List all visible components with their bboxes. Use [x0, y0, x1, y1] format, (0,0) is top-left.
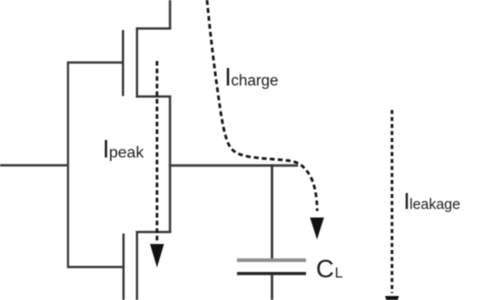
- svg-text:peak: peak: [109, 145, 145, 162]
- wire output node: horizontal run: [169, 164, 298, 166]
- label CL: [316, 256, 343, 284]
- capacitor CL top lead: [271, 164, 273, 258]
- wire PMOS gate lead: [68, 61, 123, 63]
- current arrow Icharge (dashed S-curve to capacitor): [207, 0, 324, 240]
- svg-text:charge: charge: [231, 73, 278, 90]
- svg-text:leakage: leakage: [410, 197, 461, 213]
- svg-text:L: L: [335, 266, 343, 282]
- capacitor CL bottom lead: [271, 275, 273, 300]
- wire NMOS gate lead: [68, 266, 124, 268]
- capacitor CL top plate: [237, 258, 306, 262]
- wire gate bus vertical: [67, 61, 69, 268]
- transistor M1 PMOS: gate plate, channel bar, drain/source bars: [123, 27, 171, 97]
- svg-text:C: C: [316, 256, 334, 284]
- current arrow Ipeak (dashed, down through inverter): [150, 61, 164, 268]
- wire PMOS drain stub to VDD (top edge): [169, 0, 171, 29]
- wire input from left edge: [0, 164, 69, 166]
- capacitor CL bottom plate: [237, 272, 306, 275]
- current arrow Ileakage (dashed, right side): [385, 110, 399, 300]
- wire output node: inverter mid stub: [169, 97, 171, 233]
- label Ipeak: [103, 136, 145, 164]
- label Icharge: [225, 64, 279, 92]
- label Ileakage: [404, 188, 461, 214]
- transistor M2 NMOS: channel bar, drain bar, gate plate (cut by frame): [124, 231, 172, 300]
